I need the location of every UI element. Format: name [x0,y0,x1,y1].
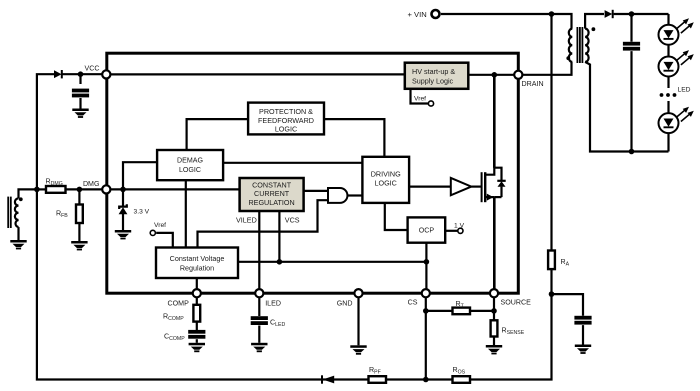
diode D1 (VCC) [54,70,102,78]
block constant current regulation [240,178,304,211]
svg-text:Supply Logic: Supply Logic [412,77,454,86]
svg-text:RCOMP: RCOMP [163,312,184,322]
wire CVR right rail to CS [238,261,426,263]
capacitor C1 (VCC) [72,74,89,108]
svg-text:RSENSE: RSENSE [502,327,525,337]
wire DRIVING right to buffer [409,186,451,188]
ground aux winding [10,240,26,249]
svg-text:COMP: COMP [168,299,190,307]
node OCP-CS junction [424,259,430,265]
LED D6 [659,107,694,133]
svg-text:CS: CS [408,298,418,306]
wire MOSFET drain vertical [493,75,496,168]
wire left feedback vertical [37,74,426,379]
HV start-up block [405,63,469,89]
wire secondary return [585,62,668,152]
resistor RFB [56,189,83,241]
svg-text:LOGIC: LOGIC [375,179,397,188]
wire DRAIN to primary bottom [522,62,571,75]
node LED string dots [660,87,691,97]
resistor RDMG [37,178,102,193]
svg-text:DRAIN: DRAIN [522,80,544,88]
wire OCP right to 1V terminal [445,230,458,232]
ground VCC cap [72,109,88,118]
ground GND pin [350,345,366,354]
svg-text:LOGIC: LOGIC [275,125,297,134]
block constant voltage regulation [156,248,238,279]
pin SOURCE [490,289,498,297]
svg-text:GND: GND [337,299,353,307]
wire LED1-LED2 [667,45,669,57]
wire dots to LED3 [667,101,669,113]
wire HV block to DRAIN pin [468,74,518,76]
svg-text:CCOMP: CCOMP [164,333,185,343]
svg-text:+ VIN: + VIN [408,10,427,19]
wire OCP bottom to CS pin [425,243,427,294]
svg-text:RFB: RFB [56,210,68,220]
wire DMG up to DEMAG left [123,162,157,189]
LED D4 [659,14,694,45]
wire MOSFET source to SOURCE pin [493,197,496,293]
node cap bottom junction [629,149,635,155]
pin ILED [255,289,263,297]
svg-text:Vref: Vref [414,96,426,103]
node drain junction [492,72,498,78]
svg-text:DRIVING: DRIVING [371,169,401,178]
svg-text:1 V: 1 V [454,223,465,230]
node VIN terminal [432,10,440,18]
svg-text:Vref: Vref [154,222,166,229]
pin CS [422,289,430,297]
MOSFET Q1 [481,168,506,294]
wire GND pin down [357,297,359,345]
svg-text:FEEDFORWARD: FEEDFORWARD [258,116,314,125]
diode D3 (output) [605,10,669,18]
capacitor C3 (output) [623,14,640,152]
svg-text:HV start-up &: HV start-up & [412,67,455,76]
node output cap junction [629,11,635,17]
svg-text:RA: RA [561,258,570,268]
svg-text:LOGIC: LOGIC [179,166,201,174]
wire Vref to CVR top [156,233,173,248]
resistor RA [548,251,570,295]
wire RA vertical upper [550,14,552,251]
wire PFL left to DEMAG top [187,119,249,150]
wire bottom right segment [426,294,552,379]
capacitor C2 (aux ext) [552,294,592,344]
pin VCC [102,70,110,78]
svg-text:PROTECTION &: PROTECTION & [259,107,313,116]
ground RFB [71,241,87,250]
svg-text:VCC: VCC [85,65,100,73]
pin GND [354,289,362,297]
resistor RCOMP chain [163,297,200,330]
svg-text:CLED: CLED [270,319,285,329]
resistor ROS [453,366,471,383]
node Vref terminal (CVR) [150,230,155,235]
block OCP [408,217,446,242]
ground CCOMP [189,343,205,352]
wire CCR right to AND gate upper input [304,190,329,192]
wire DEMAG bottom to CVR top [185,180,187,247]
buffer amplifier [451,178,472,195]
ground RSENSE [486,345,502,354]
wire secondary top to diode [585,14,604,29]
capacitor CCOMP [164,330,205,343]
node VIN-RA junction [549,11,555,17]
pin COMP [193,289,201,297]
transformer aux winding [8,189,37,240]
block DEMAG logic [157,150,223,180]
zener diode 3.3V [119,189,150,230]
wire DMG pin to CCR left [106,188,239,190]
wire DEMAG right to DRIVING left [223,162,362,164]
svg-text:SOURCE: SOURCE [501,298,532,306]
wire VIN to transformer primary [441,14,572,29]
wire VCC rail to HV block [106,73,405,75]
node RA-cap junction [549,291,555,297]
svg-text:3.3 V: 3.3 V [134,209,150,216]
wire DRIVING bottom to OCP left [385,203,408,230]
node aux junction [34,187,40,193]
svg-text:VCS: VCS [285,216,300,225]
svg-text:VILED: VILED [236,216,257,225]
wire CVR bottom to COMP pin [196,278,198,294]
wire SOURCE pin down [493,297,495,320]
wire VCS vertical [278,211,280,262]
node RFB junction [77,187,83,193]
pin DRAIN [514,71,522,79]
wire CVR top to AND gate lower input [198,200,329,247]
node VCC cap junction [78,71,84,77]
ground C2 [575,345,591,354]
transformer T1 [566,27,595,63]
resistor RSENSE [491,320,525,345]
node SOURCE-RT junction [491,308,497,314]
svg-text:Constant Voltage: Constant Voltage [170,254,225,263]
wire buffer to gate [471,186,481,188]
svg-text:OCP: OCP [419,226,435,234]
capacitor CLED [251,297,286,343]
svg-text:DMG: DMG [83,180,100,188]
wire PFL right to DRIVING top [324,119,384,157]
pin DMG [102,185,110,193]
svg-text:ILED: ILED [265,299,281,307]
wire CS pin down [425,297,427,379]
node DMG junction [120,187,126,193]
svg-text:RPF: RPF [369,366,381,376]
wire LED2 to dots [667,76,669,88]
wire AND output to DRIVING left [347,194,362,196]
resistor RPF [369,366,387,383]
node Vref terminal (HV) [428,101,433,106]
svg-text:Regulation: Regulation [180,264,214,273]
ground CLED [251,343,267,352]
svg-text:LED: LED [678,87,691,94]
IC outline U1 [107,53,519,293]
svg-text:ROS: ROS [453,366,466,376]
block protection & feedforward logic [248,103,324,135]
svg-text:DEMAG: DEMAG [177,157,203,165]
wire Vref stub under HV block [411,89,429,104]
node CS bottom junction [423,377,429,383]
resistor RT [426,300,494,314]
LED D5 [659,50,694,76]
svg-text:CURRENT: CURRENT [254,189,290,198]
AND gate [328,188,347,203]
node 1V terminal [458,228,463,233]
wire LED3 down to return [667,133,669,152]
node CS-RT junction [423,308,429,314]
diode D2 (bottom, pointing left) [321,375,334,383]
node VCS junction [277,259,283,265]
ground zener [115,230,131,239]
wire VILED vertical to ILED pin [258,211,260,294]
svg-text:REGULATION: REGULATION [248,198,294,207]
block driving logic [362,157,409,203]
